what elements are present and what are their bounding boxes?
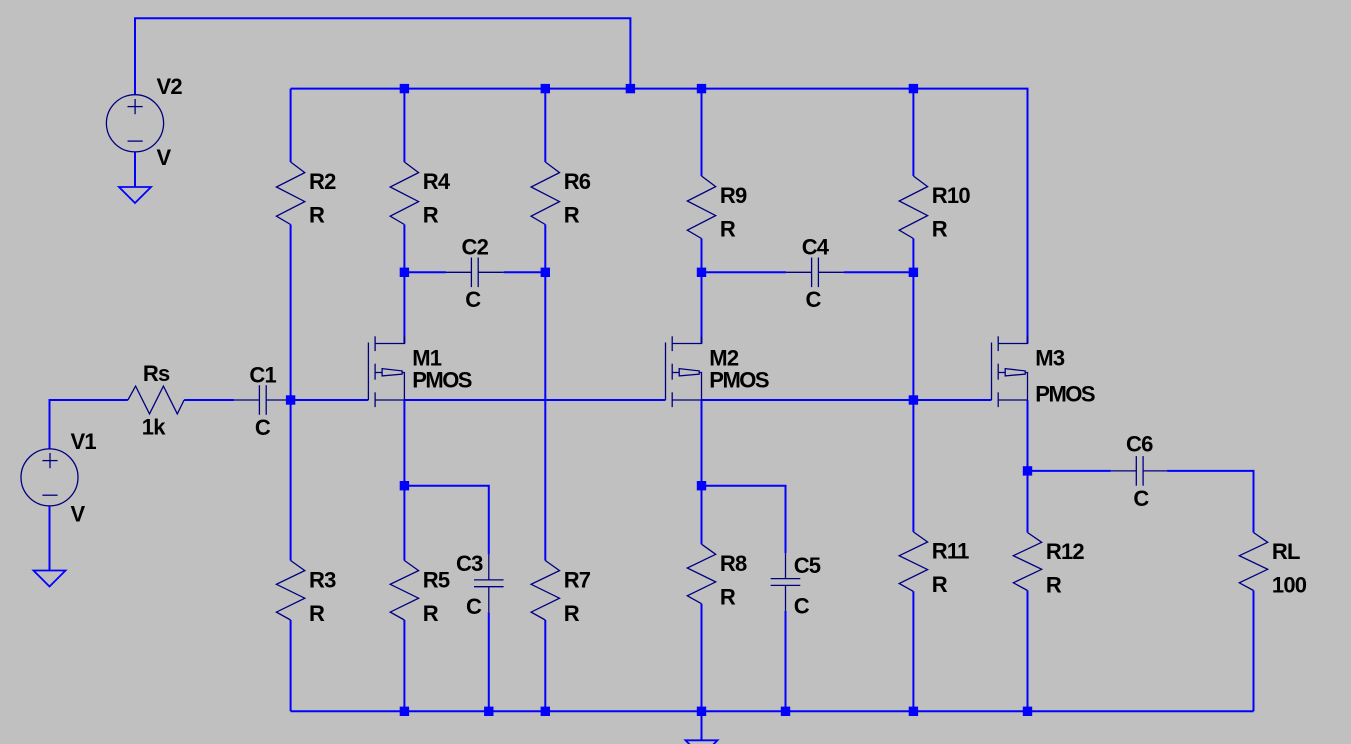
wire C3 to bottom rail (488, 612, 490, 711)
node top rail R4 (400, 84, 409, 93)
wire V1 top lead (49, 400, 51, 449)
resistor R11 (899, 532, 969, 597)
resistor R10 (899, 176, 970, 242)
wire V2 bottom lead (134, 152, 136, 187)
node M3 source (1023, 466, 1032, 475)
voltage source V2 (106, 74, 182, 170)
wire R6 column top (544, 89, 546, 162)
svg-text:RL: RL (1272, 539, 1300, 564)
resistor R2 (276, 162, 336, 228)
resistor R5 (390, 561, 450, 627)
svg-text:R: R (1046, 573, 1062, 598)
svg-text:R: R (309, 601, 325, 626)
wire R2 column top (290, 89, 292, 162)
wire R4 to M1 drain (403, 225, 405, 344)
voltage source V1 (21, 429, 96, 527)
resistor R6 (531, 162, 591, 228)
wire R8 to bottom rail (701, 604, 703, 712)
wire bottom ground rail (291, 710, 1254, 712)
svg-text:C: C (1133, 486, 1149, 511)
capacitor C4 (786, 235, 844, 312)
svg-text:R: R (564, 203, 580, 228)
wire C5 to bottom rail (785, 611, 787, 711)
transistor M2 PMOS (666, 336, 769, 407)
wire R4 column top (403, 89, 405, 162)
wire R3 to bottom rail (290, 620, 292, 711)
svg-text:R: R (423, 203, 439, 228)
svg-text:R: R (309, 203, 325, 228)
svg-text:R4: R4 (423, 169, 451, 194)
node R11 top (909, 395, 918, 404)
resistor R7 (531, 561, 591, 627)
resistor Rs (128, 361, 184, 440)
wire M3 source node to C6 (1028, 470, 1111, 472)
wire M1 source to M2 gate (404, 399, 665, 401)
wire V1 to Rs (50, 400, 128, 449)
node M2 source (697, 481, 706, 490)
capacitor C1 (234, 363, 292, 441)
node top rail R10 (909, 84, 918, 93)
wire R10 to R11 column (912, 239, 914, 532)
svg-text:C6: C6 (1126, 432, 1153, 457)
svg-text:R2: R2 (309, 169, 336, 194)
svg-text:R12: R12 (1046, 539, 1085, 564)
resistor R8 (687, 544, 747, 610)
svg-text:R5: R5 (423, 568, 450, 593)
svg-text:C: C (466, 594, 482, 619)
wire M1 source down to R5 (403, 400, 405, 561)
wire V1 bottom lead (49, 506, 51, 571)
resistor R12 (1013, 533, 1084, 598)
wire R7 to bottom rail (544, 620, 546, 711)
svg-text:C2: C2 (462, 235, 489, 260)
node C4 left (697, 268, 706, 277)
svg-text:R8: R8 (720, 551, 747, 576)
svg-text:R: R (720, 585, 736, 610)
transistor M1 PMOS (368, 336, 471, 407)
capacitor C6 (1111, 432, 1167, 512)
node bottom rail R5 (400, 707, 409, 716)
node bottom rail C5 (781, 707, 790, 716)
svg-text:R3: R3 (309, 568, 336, 593)
wire C1 node to M1 gate (291, 399, 369, 401)
resistor R3 (276, 561, 336, 627)
svg-text:C: C (465, 287, 481, 312)
svg-text:C4: C4 (802, 235, 830, 260)
wire M2 source to M3 gate (702, 399, 992, 401)
wire C4 left (702, 271, 787, 273)
wire R9 to M2 drain (701, 239, 703, 344)
svg-text:R7: R7 (564, 568, 591, 593)
ground bottom center (686, 740, 718, 744)
svg-text:C: C (806, 287, 822, 312)
capacitor C2 (446, 235, 504, 312)
wire RL to bottom rail (1253, 591, 1255, 712)
node M1 source (400, 481, 409, 490)
wire R5 to bottom rail (403, 620, 405, 711)
svg-text:R10: R10 (932, 183, 971, 208)
wire R10 column top (912, 89, 914, 176)
node C2 left (400, 268, 409, 277)
node bottom rail R12 (1023, 707, 1032, 716)
wire R11 to bottom rail (912, 591, 914, 711)
wire M1 source node to C3 (404, 486, 488, 555)
wire top supply rail (291, 89, 1028, 344)
node C2 right (541, 268, 550, 277)
svg-text:R: R (932, 217, 948, 242)
wire R9 column top (701, 89, 703, 176)
wire Rs to C1 (184, 399, 234, 401)
svg-text:V2: V2 (157, 74, 183, 99)
svg-text:R: R (720, 217, 736, 242)
resistor RL (1239, 533, 1306, 598)
node bottom rail ground (697, 707, 706, 716)
wire C2 right (504, 271, 546, 273)
svg-text:PMOS: PMOS (1035, 382, 1095, 407)
wire R6 to R7 column (544, 225, 546, 561)
node C1 output (286, 395, 295, 404)
svg-text:C3: C3 (456, 551, 483, 576)
wire M2 source node to C5 (702, 486, 786, 553)
svg-text:R9: R9 (720, 183, 747, 208)
svg-text:R: R (423, 601, 439, 626)
wire C2 left (404, 271, 446, 273)
wire bottom rail to ground (701, 711, 703, 740)
ground below V2 (119, 187, 151, 203)
svg-text:C1: C1 (249, 363, 276, 388)
ground below V1 (34, 571, 66, 587)
svg-text:C: C (255, 415, 271, 440)
node bottom rail R11 (909, 707, 918, 716)
svg-text:1k: 1k (142, 415, 166, 440)
svg-text:M3: M3 (1035, 345, 1065, 370)
wire M3 source down to R12 (1027, 400, 1029, 533)
node top rail R9 (697, 84, 706, 93)
wire R12 to bottom rail (1027, 591, 1029, 712)
svg-text:R11: R11 (932, 538, 969, 563)
svg-text:V: V (71, 502, 86, 527)
svg-text:PMOS: PMOS (412, 367, 472, 392)
svg-text:R: R (564, 601, 580, 626)
svg-text:100: 100 (1272, 573, 1307, 598)
wire C4 right (844, 271, 914, 273)
transistor M3 PMOS (992, 336, 1095, 407)
svg-text:R6: R6 (564, 169, 591, 194)
wire M2 source down to R8 (701, 400, 703, 544)
node C4 right (909, 268, 918, 277)
node bottom rail R7 (541, 707, 550, 716)
capacitor C3 (456, 551, 504, 619)
svg-text:C5: C5 (794, 553, 821, 578)
svg-text:V: V (157, 145, 172, 170)
node top rail V2 feed (626, 84, 635, 93)
resistor R9 (687, 176, 747, 242)
svg-text:C: C (794, 594, 810, 619)
wire C6 to RL (1167, 471, 1253, 533)
svg-text:Rs: Rs (143, 361, 170, 386)
wire V2 top feed (135, 18, 630, 95)
wire R2 to C1 node (290, 225, 292, 561)
capacitor C5 (771, 553, 821, 619)
resistor R4 (390, 162, 451, 228)
node bottom rail C3 (484, 707, 493, 716)
svg-text:PMOS: PMOS (709, 367, 769, 392)
svg-text:V1: V1 (71, 429, 97, 454)
node top rail R6 (541, 84, 550, 93)
svg-text:R: R (932, 572, 948, 597)
